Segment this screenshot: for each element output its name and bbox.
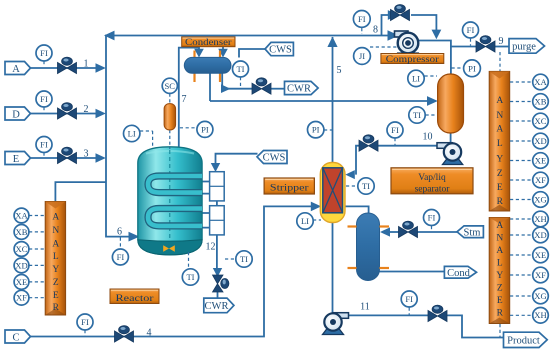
svg-text:Z: Z <box>53 278 59 288</box>
condenser tube mark left <box>193 51 195 83</box>
reboiler tube mark lower right <box>380 267 390 269</box>
instrument FI feed D <box>36 91 52 112</box>
analyzer bar right bottom <box>489 218 510 324</box>
svg-text:A: A <box>12 64 20 75</box>
wire bypass after valve to discharge <box>411 15 436 30</box>
svg-text:TI: TI <box>362 181 370 191</box>
svg-text:TI: TI <box>240 254 248 264</box>
valve 12 vertical <box>213 275 229 292</box>
arrow CWR from drum marker <box>221 84 231 93</box>
svg-text:TI: TI <box>186 272 194 282</box>
cooling box lower <box>210 206 225 235</box>
valve 10 <box>359 135 378 151</box>
svg-text:10: 10 <box>423 132 433 143</box>
svg-text:XC: XC <box>535 116 547 126</box>
wire feed C stream 4 <box>30 206 312 336</box>
wire stripper overhead stream 5 <box>332 37 334 163</box>
svg-text:PI: PI <box>312 125 320 135</box>
svg-text:9: 9 <box>499 36 504 47</box>
svg-text:4: 4 <box>147 328 152 339</box>
wire between cooling boxes <box>216 201 218 206</box>
arrow condenser stub into drum <box>218 49 228 58</box>
instrument PI reactor <box>180 121 213 137</box>
wire stream 10 valve to stripper <box>356 146 360 175</box>
svg-text:E: E <box>497 183 503 193</box>
wire CWR after valve <box>271 88 286 90</box>
valve 9 <box>476 36 495 52</box>
wire condenser second inlet stub <box>222 47 224 51</box>
svg-text:TI: TI <box>236 64 244 74</box>
instrument XA left <box>14 208 45 223</box>
svg-text:CWS: CWS <box>263 153 286 164</box>
svg-text:FI: FI <box>81 317 89 327</box>
tag CWR condenser <box>285 81 319 94</box>
svg-text:L: L <box>497 259 503 269</box>
wire steam after valve <box>388 231 399 233</box>
instrument XH right bottom <box>510 308 548 324</box>
tag CWS condenser <box>265 42 293 55</box>
svg-text:1: 1 <box>84 59 89 70</box>
svg-text:E: E <box>53 291 59 301</box>
reactor bottom band <box>138 240 202 255</box>
svg-text:PI: PI <box>468 63 476 73</box>
tag CWR bottom <box>204 298 234 313</box>
tag Cond <box>444 266 476 278</box>
arrow CWS down into cooling box <box>211 163 220 172</box>
tag stream A <box>5 62 31 76</box>
wire drum liquid outlet <box>209 72 211 101</box>
valve 1 <box>58 57 77 73</box>
svg-text:XF: XF <box>535 270 546 280</box>
svg-text:JI: JI <box>359 51 365 61</box>
instrument FI steam <box>424 210 440 232</box>
label Compressor <box>381 54 444 65</box>
svg-text:XA: XA <box>15 210 28 220</box>
wire steam line to reboiler <box>418 231 458 233</box>
wire purge branch stream 9 <box>451 46 477 48</box>
analyzer bar left <box>45 202 65 316</box>
svg-text:N: N <box>496 111 503 121</box>
reactor coil upper <box>148 176 202 193</box>
instrument XE right bottom <box>510 247 548 263</box>
svg-text:XD: XD <box>534 136 546 146</box>
svg-text:A: A <box>52 212 59 222</box>
svg-text:FI: FI <box>358 14 366 24</box>
instrument FI stream 10 <box>387 122 403 145</box>
wire analyzer branch <box>55 182 106 201</box>
cooling box upper <box>210 172 225 201</box>
condenser tube mark right <box>219 51 221 83</box>
wire condensate to separator <box>210 100 428 102</box>
valve steam <box>399 221 418 237</box>
instrument FI purge <box>463 22 479 46</box>
svg-text:CWS: CWS <box>269 45 292 56</box>
svg-text:purge: purge <box>512 42 536 53</box>
arrow bypass into valve 8 <box>388 10 399 20</box>
svg-text:XA: XA <box>534 77 547 87</box>
svg-text:SC: SC <box>165 81 176 91</box>
svg-text:N: N <box>496 234 503 244</box>
wire bypass up and over valve 8 <box>382 15 389 36</box>
label Stripper <box>264 178 314 194</box>
label Reactor <box>110 289 159 304</box>
wire stream 7 reactor to condenser <box>179 48 199 148</box>
reactor vessel body <box>138 147 202 255</box>
arrow stream 5 up <box>327 37 337 47</box>
svg-text:FI: FI <box>391 125 399 135</box>
instrument TI separator <box>409 107 437 123</box>
instrument PI stripper overhead <box>308 122 333 138</box>
svg-text:XC: XC <box>16 244 28 254</box>
svg-text:XB: XB <box>16 227 28 237</box>
wire separator bottom to pump <box>450 132 452 144</box>
svg-text:Z: Z <box>497 169 503 179</box>
svg-text:FI: FI <box>467 25 475 35</box>
svg-text:FI: FI <box>40 48 48 58</box>
svg-text:XE: XE <box>535 250 546 260</box>
wire feed E <box>30 157 96 159</box>
instrument TI stripper <box>346 178 374 194</box>
svg-text:E: E <box>13 154 19 165</box>
reboiler tube mark lower left <box>348 267 357 269</box>
wire CWR branch from drum <box>222 72 252 89</box>
sample dash product to analyzer <box>499 324 501 337</box>
svg-text:Stripper: Stripper <box>270 183 310 193</box>
svg-text:A: A <box>496 221 503 231</box>
svg-text:11: 11 <box>360 302 370 313</box>
svg-text:XH: XH <box>534 214 546 224</box>
svg-text:XG: XG <box>534 291 546 301</box>
svg-text:FI: FI <box>405 294 413 304</box>
wire main feed vertical <box>106 35 129 237</box>
instrument XG right top <box>510 192 548 208</box>
wire feed A <box>30 67 96 69</box>
svg-text:R: R <box>497 308 504 318</box>
svg-text:Compressor: Compressor <box>386 55 440 65</box>
svg-text:CWR: CWR <box>205 301 229 312</box>
svg-text:Stm: Stm <box>464 227 481 238</box>
instrument LI separator <box>408 70 437 86</box>
svg-text:Y: Y <box>52 265 59 275</box>
instrument XB right top <box>510 94 548 110</box>
wire reactor coil stubs upper box <box>202 182 210 194</box>
reactor coil lower <box>148 209 202 226</box>
wire stream 10 pump to valve <box>378 145 438 147</box>
instrument XD right top <box>510 133 548 149</box>
instrument XF left <box>14 290 45 305</box>
arrow feed E join <box>96 153 106 162</box>
svg-text:FI: FI <box>40 140 48 150</box>
svg-text:XB: XB <box>535 96 547 106</box>
separator vessel <box>438 74 464 133</box>
arrow steam into reboiler <box>380 227 390 236</box>
sample dash purge to analyzer <box>499 52 501 71</box>
svg-text:TI: TI <box>413 110 421 120</box>
svg-text:D: D <box>12 110 20 121</box>
condenser drum <box>184 57 231 73</box>
instrument XA right top <box>510 74 548 90</box>
instrument TI reactor bottom <box>182 252 198 285</box>
stripper vessel shell <box>320 163 345 223</box>
svg-text:A: A <box>496 125 503 135</box>
instrument XC right top <box>510 113 548 129</box>
wire valve 12 to CWR <box>217 291 219 299</box>
wire feed D <box>30 113 96 115</box>
tag CWS reactor <box>257 151 287 164</box>
instrument JI compressor <box>354 47 397 64</box>
svg-text:2: 2 <box>84 104 89 115</box>
tag purge <box>509 39 545 54</box>
instrument XF right bottom <box>510 267 548 283</box>
instrument FI feed E <box>36 137 52 158</box>
arrow condensate into separator <box>427 96 438 106</box>
instrument XE right top <box>510 153 548 169</box>
instrument SC <box>162 78 177 103</box>
svg-text:LI: LI <box>301 216 309 226</box>
instrument XD right bottom <box>510 227 548 243</box>
instrument XF right top <box>510 172 548 188</box>
svg-text:N: N <box>52 226 59 236</box>
orange capsule stream 7 pot <box>164 104 176 149</box>
instrument TI condenser <box>233 61 249 88</box>
arrow feed A join <box>96 63 106 72</box>
svg-text:L: L <box>53 252 59 262</box>
svg-text:C: C <box>12 333 19 344</box>
arrow bypass down join <box>432 30 442 40</box>
svg-text:XF: XF <box>535 175 546 185</box>
instrument XE left <box>14 275 45 290</box>
arrow into valve 12 <box>213 268 222 277</box>
wire reactor CWS inlet <box>216 154 258 164</box>
svg-text:Cond: Cond <box>447 268 471 279</box>
arrow recycle into feed line <box>104 31 115 41</box>
svg-text:PI: PI <box>201 124 209 134</box>
svg-text:CWR: CWR <box>287 84 311 95</box>
arrow feed D join <box>96 109 106 118</box>
wire stripper base to pump <box>332 222 334 314</box>
tag stream C <box>5 330 31 344</box>
wire reactor coil stubs lower box <box>202 213 210 228</box>
arrow stream 7 into drum <box>194 49 204 58</box>
svg-text:L: L <box>497 139 503 149</box>
instrument XB left <box>14 225 45 240</box>
svg-text:A: A <box>496 246 503 256</box>
svg-text:separator: separator <box>415 185 451 195</box>
SECTION: components <box>5 45 159 344</box>
svg-text:FI: FI <box>428 213 436 223</box>
svg-text:Condenser: Condenser <box>185 38 232 48</box>
wire cooling outlet to valve 12 <box>216 235 218 269</box>
instrument XD left <box>14 258 45 273</box>
arrow stream 10 into stripper <box>345 170 355 179</box>
instrument FI feed C <box>77 314 93 336</box>
svg-text:XD: XD <box>15 260 27 270</box>
svg-text:6: 6 <box>117 227 122 238</box>
stripper packing <box>323 168 343 213</box>
svg-text:Product: Product <box>507 335 540 346</box>
tag Product <box>504 332 548 347</box>
pump stripper bottoms <box>323 313 349 335</box>
svg-text:XG: XG <box>534 194 546 204</box>
svg-text:Reactor: Reactor <box>116 294 155 304</box>
instrument XH right top <box>510 211 548 227</box>
wire stream 11 to product <box>446 315 504 337</box>
instrument TI cooling outlet <box>225 251 252 267</box>
svg-text:XE: XE <box>535 155 546 165</box>
wire compressor discharge <box>417 41 451 75</box>
svg-text:R: R <box>53 303 60 313</box>
instrument FI stream 6 <box>112 238 128 266</box>
svg-text:7: 7 <box>182 94 187 105</box>
svg-text:LI: LI <box>412 73 420 83</box>
svg-text:XF: XF <box>16 293 27 303</box>
instrument FI stream 8 <box>353 11 370 35</box>
tag stream D <box>5 107 31 121</box>
reboiler vessel <box>357 213 380 281</box>
reboiler tube mark upper right <box>380 225 390 227</box>
compressor symbol <box>395 31 422 59</box>
valve 11 <box>428 305 447 321</box>
valve 8 bypass <box>391 5 410 21</box>
svg-text:12: 12 <box>206 242 216 253</box>
instrument LI stripper <box>297 213 321 229</box>
svg-text:XD: XD <box>534 230 546 240</box>
svg-text:5: 5 <box>337 65 342 76</box>
reactor agitator mark <box>163 245 175 252</box>
svg-text:E: E <box>497 296 503 306</box>
reboiler tube mark upper left <box>348 225 357 227</box>
svg-text:R: R <box>497 197 504 207</box>
svg-text:A: A <box>52 239 59 249</box>
svg-text:Vap/liq: Vap/liq <box>418 173 446 183</box>
svg-text:Z: Z <box>497 284 503 294</box>
wire stream 11 pump outlet <box>348 314 429 316</box>
valve 2 <box>58 103 77 119</box>
instrument LI reactor <box>124 125 153 146</box>
instrument PI separator <box>452 60 481 77</box>
analyzer bar right top <box>489 71 510 211</box>
reactor top shine <box>146 151 194 154</box>
wire condensate out of reboiler <box>380 271 446 273</box>
wire stripper bottoms to reboiler <box>345 206 369 214</box>
svg-text:FI: FI <box>117 252 125 262</box>
tag Stm <box>457 226 483 238</box>
arrow stream 4 into stripper <box>311 202 321 212</box>
valve CWR condenser <box>252 78 271 94</box>
instrument XG right bottom <box>510 288 548 304</box>
svg-text:XH: XH <box>534 310 546 320</box>
svg-text:XE: XE <box>16 277 27 287</box>
arrow stream 6 into reactor <box>129 232 140 242</box>
svg-text:A: A <box>496 96 503 106</box>
svg-text:FI: FI <box>40 94 48 104</box>
instrument XC left <box>14 242 45 257</box>
valve 4 <box>115 326 134 342</box>
svg-text:Y: Y <box>496 271 503 281</box>
wire top recycle line (8) <box>106 35 394 37</box>
pump separator bottom <box>437 143 463 165</box>
svg-text:Y: Y <box>496 155 503 165</box>
wire purge after valve <box>494 46 510 48</box>
wire CWS to condenser <box>239 49 265 58</box>
svg-text:8: 8 <box>373 25 378 36</box>
instrument FI stream 11 <box>401 291 417 315</box>
valve 3 <box>58 147 77 163</box>
svg-text:3: 3 <box>84 149 89 160</box>
label Vap/liq separator <box>391 168 473 195</box>
tag stream E <box>5 152 31 166</box>
arrow suction into compressor <box>388 30 400 41</box>
reactor centerline dashed <box>169 150 171 240</box>
instrument FI feed A <box>36 45 52 66</box>
svg-text:LI: LI <box>128 129 136 139</box>
label Condenser <box>182 37 235 48</box>
